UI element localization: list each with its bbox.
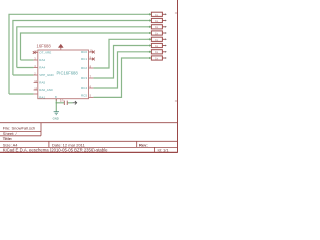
svg-text:RA4: RA4	[39, 66, 45, 70]
svg-text:Title:: Title:	[3, 136, 12, 141]
wire row1 to IC left pin	[9, 93, 34, 95]
sheet right border	[177, 0, 179, 153]
resistor R2	[147, 18, 167, 23]
svg-text:1k: 1k	[155, 13, 159, 17]
svg-text:RC1: RC1	[81, 57, 87, 61]
svg-text:1k: 1k	[155, 19, 159, 23]
resistor R6	[147, 43, 167, 48]
wire to capacitor	[56, 102, 64, 104]
svg-text:RA5: RA5	[39, 81, 45, 85]
resistor R3	[147, 25, 167, 30]
svg-text:16F688: 16F688	[37, 43, 52, 48]
svg-text:OT_VRE: OT_VRE	[39, 51, 51, 55]
sheet row underline	[0, 135, 41, 137]
wire row3 to IC left pin	[17, 67, 34, 69]
IC U1 PIC16F688 body	[38, 50, 89, 99]
svg-text:VPP_GND: VPP_GND	[39, 73, 54, 77]
pin numbers (red)	[34, 48, 93, 97]
title block texts	[3, 125, 170, 152]
ground symbol	[54, 112, 59, 115]
file row underline	[0, 130, 41, 132]
svg-text:1k: 1k	[155, 44, 159, 48]
file box right edge	[40, 123, 42, 136]
wire row4 to IC left pin	[21, 59, 34, 61]
title block top line	[0, 122, 178, 124]
hier label arrow right of capacitor	[73, 101, 77, 104]
frame zone tick lower	[175, 100, 178, 102]
wire row5 from IC right pin	[93, 39, 147, 68]
svg-text:RC5: RC5	[81, 94, 87, 98]
resistor R8	[147, 56, 167, 61]
power flag VDD above IC	[59, 45, 63, 48]
size row underline	[0, 146, 178, 148]
wire row3 left route	[17, 27, 148, 68]
sheet bottom border	[0, 151, 178, 153]
resistor R1	[147, 12, 167, 17]
svg-text:Rev:: Rev:	[139, 142, 148, 147]
wire capacitor to arrow	[68, 102, 73, 104]
junction VSS node	[56, 102, 58, 104]
svg-text:RC4: RC4	[81, 86, 87, 90]
no-connect X right pin 2	[92, 58, 95, 61]
wire VSS down from IC bottom	[55, 99, 57, 112]
svg-text:Id: 1/1: Id: 1/1	[158, 147, 170, 152]
resistor R7	[147, 50, 167, 55]
wire row2 left route	[13, 21, 148, 76]
svg-text:1k: 1k	[155, 57, 159, 61]
svg-text:1n: 1n	[60, 99, 64, 103]
svg-text:RC2: RC2	[81, 66, 87, 70]
title row underline	[0, 140, 178, 142]
svg-text:RC0: RC0	[81, 50, 87, 54]
capacitor C1 plates	[64, 101, 67, 105]
resistor R5	[147, 37, 167, 42]
svg-text:File: SnowFall.sch: File: SnowFall.sch	[3, 125, 35, 130]
wire row4 left route	[21, 33, 148, 60]
title block frame	[0, 123, 178, 153]
svg-text:1k: 1k	[155, 32, 159, 36]
frame zone tick upper	[175, 12, 178, 14]
resistor R4	[147, 31, 167, 36]
pin names left (teal)	[39, 51, 57, 100]
sep id	[154, 147, 156, 152]
svg-text:GND: GND	[53, 116, 59, 120]
wire row1 left route	[9, 14, 147, 94]
svg-text:RA0_AN0: RA0_AN0	[39, 88, 53, 92]
pin names right (teal)	[81, 50, 87, 97]
sep size/date	[48, 141, 50, 147]
svg-text:PIC16F688: PIC16F688	[57, 71, 79, 76]
IC pin stubs	[34, 47, 94, 101]
wire row6 from IC right pin	[93, 46, 147, 79]
wire row2 to IC left pin	[13, 74, 34, 76]
svg-text:KiCad E.D.A. eeschema (2010-0: KiCad E.D.A. eeschema (2010-05-05 BZR 23…	[3, 147, 108, 152]
wire row8 from IC right pin	[93, 58, 147, 97]
svg-text:RA2: RA2	[39, 58, 45, 62]
svg-text:RC3: RC3	[81, 76, 87, 80]
wire row7 from IC right pin	[93, 52, 147, 88]
svg-text:1k: 1k	[155, 25, 159, 29]
svg-text:1k: 1k	[155, 50, 159, 54]
no-connect X right pin 1	[92, 51, 95, 54]
sep date/rev	[136, 141, 138, 147]
svg-text:1k: 1k	[155, 38, 159, 42]
no-connect X left pin 1	[33, 51, 36, 54]
svg-text:RA1: RA1	[39, 95, 45, 99]
